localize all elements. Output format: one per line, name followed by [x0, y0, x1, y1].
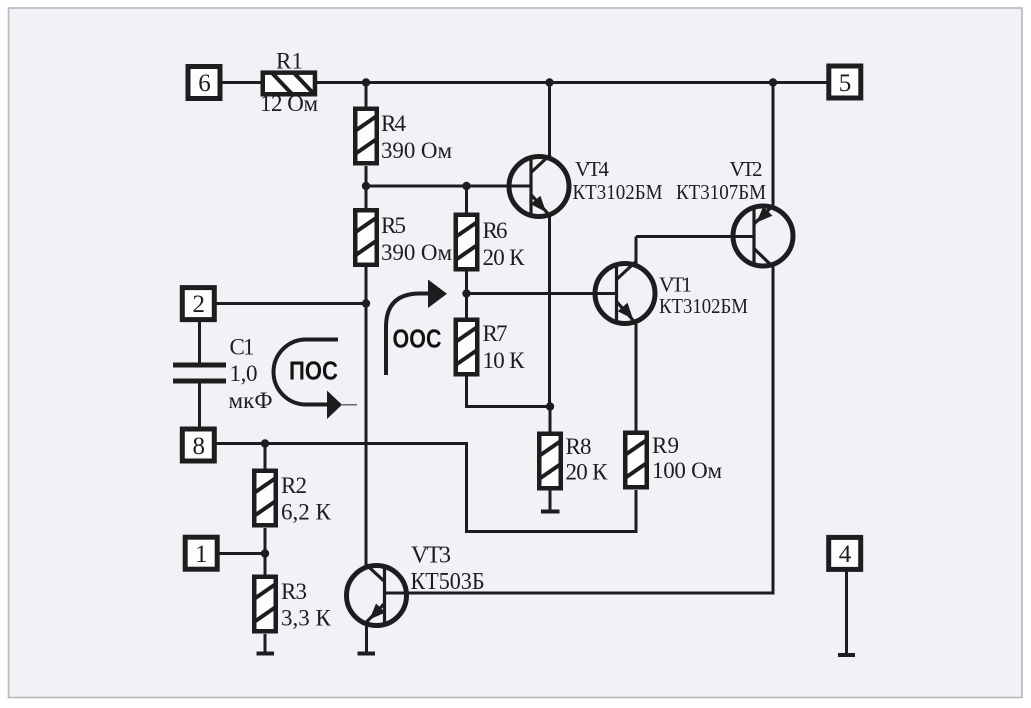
wire terminal 1 to node	[218, 552, 265, 555]
junction node R6 bottom VT1 base	[462, 289, 470, 297]
junction node R7 R8	[546, 402, 554, 410]
junction node top rail x773	[769, 78, 777, 86]
svg-text:4: 4	[839, 541, 852, 568]
svg-text:20 К: 20 К	[566, 460, 609, 485]
svg-text:R9: R9	[652, 433, 679, 458]
svg-text:20 К: 20 К	[483, 245, 526, 270]
svg-text:R6: R6	[483, 218, 508, 243]
wire rail drop to R4	[365, 83, 368, 108]
wire VT1 emitter to R9	[635, 322, 638, 431]
svg-text:R1: R1	[276, 49, 303, 74]
junction node terminal 2	[362, 299, 370, 307]
wire R4 bottom to node	[365, 166, 368, 188]
wire VT4 collector	[548, 83, 551, 157]
resistor R1 12 Ом	[263, 73, 315, 95]
ground R3	[257, 652, 275, 656]
svg-text:КТ503Б: КТ503Б	[411, 569, 485, 595]
svg-text:КТ3107БМ: КТ3107БМ	[676, 180, 766, 204]
wire R6 top lead	[465, 186, 468, 213]
junction node R2 R3 terminal 1	[261, 549, 269, 557]
resistor R3 3,3 К	[254, 577, 276, 632]
junction node top rail x366	[362, 78, 370, 86]
terminal 8	[182, 429, 214, 461]
resistor R9 100 Ом	[625, 433, 647, 488]
svg-text:2: 2	[193, 291, 206, 318]
junction node R6 top	[462, 182, 470, 190]
svg-text:390 Ом: 390 Ом	[381, 240, 452, 265]
svg-text:R7: R7	[483, 321, 508, 346]
wire terminal 2 to node	[217, 302, 367, 305]
svg-text:C1: C1	[230, 335, 255, 360]
wire top rail 6 to R1	[222, 81, 262, 84]
wire node to VT1 base	[467, 292, 617, 295]
arrow ООС	[386, 280, 447, 376]
resistor R8 20 К	[539, 434, 561, 489]
svg-text:КТ3102БМ: КТ3102БМ	[573, 180, 663, 204]
junction node R4 R5	[362, 182, 370, 190]
terminal 1	[185, 537, 217, 569]
svg-text:R4: R4	[381, 111, 407, 136]
svg-text:R5: R5	[381, 213, 406, 238]
wire R3 bottom to ground	[264, 634, 267, 652]
svg-text:10 К: 10 К	[483, 348, 526, 373]
svg-text:100 Ом: 100 Ом	[652, 458, 722, 483]
transistor VT4 КТ3102БМ	[509, 155, 569, 217]
wire VT3 emitter to ground	[365, 623, 368, 652]
wire R8 bottom lead	[549, 490, 552, 510]
wire R7 bottom to R8 node	[467, 376, 551, 407]
junction node top rail x549	[545, 78, 553, 86]
svg-text:R2: R2	[281, 473, 307, 498]
wire top rail R1 to terminal 5	[316, 81, 827, 84]
wire VT2 base	[636, 235, 754, 238]
terminal 2	[182, 288, 214, 320]
resistor R4 390 Ом	[355, 109, 377, 164]
svg-text:VT2: VT2	[730, 157, 763, 181]
resistor R6 20 К	[456, 215, 478, 270]
svg-text:VT1: VT1	[659, 273, 692, 297]
svg-text:VT4: VT4	[575, 157, 610, 181]
terminal 4	[829, 537, 861, 569]
wire VT2 collector down and to VT3 base	[385, 266, 774, 593]
wire VT4 emitter down to node	[548, 216, 551, 407]
wire R5 bottom through node 2 to VT3 collector	[365, 266, 368, 566]
svg-text:390 Ом: 390 Ом	[381, 138, 452, 163]
wire VT2 emitter from rail	[772, 83, 775, 207]
ground R8	[541, 510, 560, 514]
transistor VT1 КТ3102БМ	[595, 262, 655, 324]
svg-text:R8: R8	[566, 434, 592, 459]
terminal 5	[829, 66, 861, 98]
ground VT3	[358, 652, 376, 656]
svg-text:КТ3102БМ: КТ3102БМ	[659, 294, 748, 318]
transistor VT3 КТ503Б	[347, 565, 407, 626]
wire R2 bottom to node 1	[264, 528, 267, 575]
wire R2 top lead	[264, 444, 267, 470]
junction node R2 top	[261, 439, 269, 447]
resistor R5 390 Ом	[355, 210, 377, 265]
resistor R7 10 К	[456, 320, 478, 375]
ground terminal 4	[838, 653, 855, 657]
wire C1 bottom to terminal 8	[198, 382, 201, 428]
wire R6 bottom lead	[465, 271, 468, 294]
wire R5 top lead	[365, 186, 368, 208]
wire node to VT4 base	[366, 185, 532, 188]
wire terminal 2 to C1 top	[198, 320, 201, 363]
wire R7 top lead	[465, 294, 468, 319]
svg-text:8: 8	[193, 433, 206, 460]
wire R8 top lead	[549, 407, 552, 433]
capacitor C1 1,0 мкФ	[173, 365, 226, 381]
svg-text:5: 5	[839, 70, 852, 97]
wire terminal 4 stub	[845, 571, 848, 654]
terminal 6	[188, 67, 220, 99]
svg-text:мкФ: мкФ	[229, 388, 273, 413]
svg-text:VT3: VT3	[411, 543, 451, 569]
transistor VT2 КТ3107БМ	[733, 206, 793, 268]
svg-text:6: 6	[198, 70, 211, 97]
svg-text:12 Ом: 12 Ом	[260, 91, 318, 116]
wire VT1 collector up	[635, 237, 638, 267]
svg-text:ООС: ООС	[393, 324, 442, 354]
svg-text:R3: R3	[281, 579, 307, 604]
svg-text:1: 1	[195, 541, 208, 568]
svg-text:6,2 К: 6,2 К	[281, 500, 332, 525]
svg-text:3,3 К: 3,3 К	[281, 606, 332, 631]
resistor R2 6,2 К	[254, 471, 276, 526]
svg-text:1,0: 1,0	[230, 361, 258, 386]
arrow loop ПОС	[274, 340, 358, 420]
wire terminal 8 rail to corner	[217, 444, 637, 532]
svg-text:ПОС: ПОС	[289, 356, 338, 386]
